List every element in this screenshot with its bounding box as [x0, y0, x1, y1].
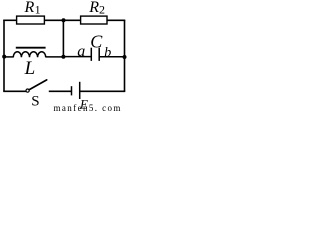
wire: top-left segment (left rail to R1)	[3, 19, 17, 21]
node: left junction dot on left rail	[2, 55, 6, 59]
svg-text:b: b	[104, 45, 111, 60]
node: top junction dot between R1 and R2	[62, 18, 66, 22]
switch S (pivot ring, open blade with tip dot)	[26, 80, 47, 92]
wire: bottom-left segment (left rail to switch pivot)	[3, 90, 26, 92]
wire: top-middle segment (R1 to R2)	[44, 19, 81, 21]
svg-text:S: S	[31, 94, 39, 110]
wire: middle junction to capacitor left plate	[63, 56, 91, 58]
wire: top-right segment (R2 to right rail)	[107, 19, 125, 21]
svg-text:R: R	[88, 0, 99, 16]
wire: inductor right lead to middle junction	[46, 56, 64, 58]
svg-text:manfen5. com: manfen5. com	[54, 103, 122, 112]
wire: left lead of inductor	[4, 56, 13, 58]
wire: middle vertical (top junction down to LC branch)	[62, 20, 64, 57]
wire: switch contact to battery	[49, 90, 72, 92]
svg-text:a: a	[77, 43, 85, 60]
resistor R2	[81, 16, 107, 24]
svg-text:R: R	[24, 0, 35, 16]
wire: right vertical rail	[124, 20, 126, 91]
battery E (short and long plates)	[72, 82, 80, 99]
label C	[90, 32, 103, 52]
svg-text:L: L	[24, 58, 36, 79]
svg-text:C: C	[90, 32, 103, 52]
node: right junction dot on right rail	[123, 55, 127, 59]
label b	[104, 45, 111, 60]
node: middle junction dot (LC branch meets middle vertical)	[61, 55, 65, 59]
wire: capacitor right plate to right rail	[99, 56, 124, 58]
label L	[24, 58, 36, 79]
wire: battery to right rail	[80, 90, 126, 92]
label E	[79, 96, 88, 111]
resistor R1	[17, 16, 45, 24]
watermark manfen5.com	[54, 103, 122, 113]
capacitor C plates	[91, 48, 99, 61]
inductor L (4 humps with core bar)	[13, 48, 45, 58]
label R1	[24, 0, 41, 16]
svg-text:1: 1	[35, 2, 41, 16]
label a	[77, 43, 85, 60]
label R2	[88, 0, 105, 17]
label S	[31, 94, 39, 110]
svg-text:2: 2	[99, 3, 105, 17]
wire: left vertical rail	[3, 20, 5, 91]
